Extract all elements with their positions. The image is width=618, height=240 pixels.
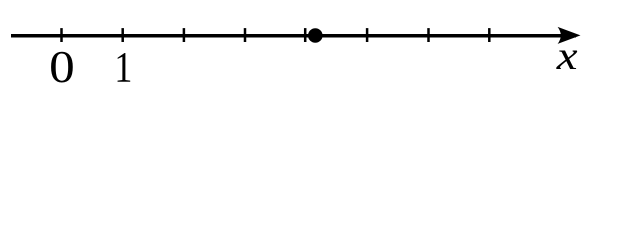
tick 1 [121,28,124,42]
plotted point dot [308,28,323,43]
tick 4 [304,28,307,42]
tick 0 [60,28,63,42]
tick 6 [427,28,430,42]
svg-text:1: 1 [114,43,132,91]
svg-text:0: 0 [49,41,75,92]
tick 5 [366,28,369,42]
arrowhead [558,27,581,44]
tick 2 [183,28,186,42]
tick 3 [244,28,247,42]
svg-text:x: x [556,33,578,78]
number line axis [11,34,576,38]
tick 7 [488,28,491,42]
